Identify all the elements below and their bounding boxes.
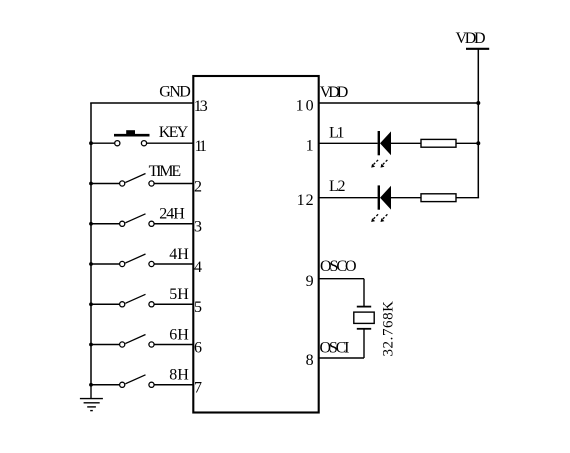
svg-text:8: 8 xyxy=(306,352,314,369)
svg-text:VDD: VDD xyxy=(320,84,349,101)
svg-text:OSCO: OSCO xyxy=(320,258,357,275)
svg-text:5: 5 xyxy=(194,299,202,316)
svg-text:4H: 4H xyxy=(169,246,189,263)
svg-text:OSCI: OSCI xyxy=(320,339,350,356)
svg-text:32.768K: 32.768K xyxy=(381,301,397,357)
svg-text:L1: L1 xyxy=(329,124,345,141)
svg-text:4: 4 xyxy=(194,259,202,276)
svg-text:13: 13 xyxy=(194,98,208,115)
svg-text:11: 11 xyxy=(195,138,208,155)
svg-text:6: 6 xyxy=(194,339,202,356)
svg-text:6H: 6H xyxy=(169,326,189,343)
svg-text:L2: L2 xyxy=(329,178,346,195)
svg-text:3: 3 xyxy=(194,219,202,236)
svg-text:7: 7 xyxy=(194,380,202,397)
svg-text:1: 1 xyxy=(306,138,314,155)
svg-text:KEY: KEY xyxy=(159,124,189,141)
svg-text:2: 2 xyxy=(194,178,202,195)
svg-text:5H: 5H xyxy=(169,286,189,303)
svg-text:24H: 24H xyxy=(159,206,185,223)
svg-text:GND: GND xyxy=(159,84,191,101)
svg-text:12: 12 xyxy=(297,192,314,209)
svg-text:VDD: VDD xyxy=(456,30,486,47)
svg-text:8H: 8H xyxy=(169,367,189,384)
svg-text:TIME: TIME xyxy=(149,163,182,180)
svg-text:9: 9 xyxy=(306,273,314,290)
svg-text:10: 10 xyxy=(296,97,314,114)
